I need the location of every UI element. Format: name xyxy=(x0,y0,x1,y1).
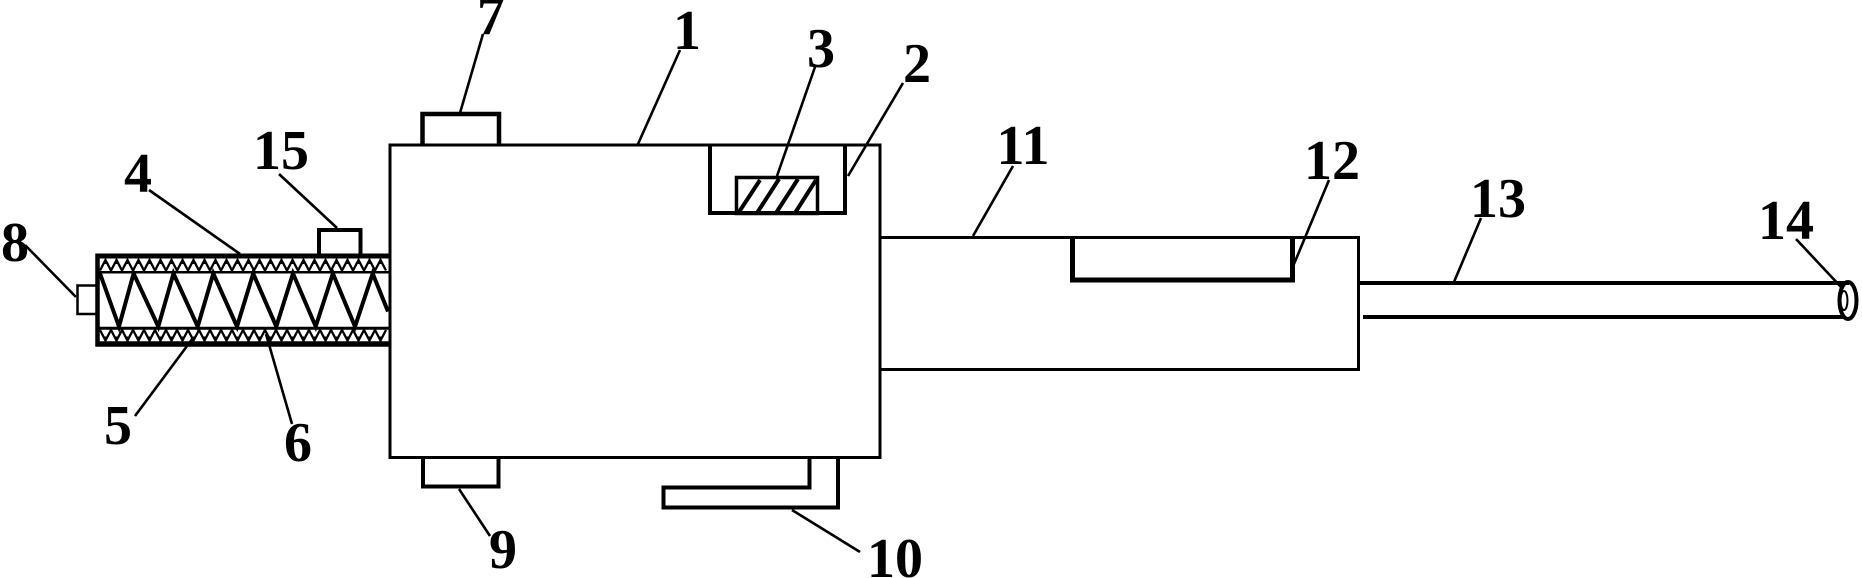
svg-text:4: 4 xyxy=(124,143,152,205)
svg-text:12: 12 xyxy=(1304,130,1360,192)
svg-text:15: 15 xyxy=(253,120,309,182)
svg-text:13: 13 xyxy=(1470,168,1526,230)
svg-text:3: 3 xyxy=(807,18,835,80)
svg-text:11: 11 xyxy=(997,115,1050,177)
svg-text:8: 8 xyxy=(1,212,29,274)
svg-text:7: 7 xyxy=(477,0,505,47)
svg-text:10: 10 xyxy=(867,528,923,578)
svg-text:1: 1 xyxy=(673,0,701,62)
svg-text:14: 14 xyxy=(1758,190,1814,252)
svg-text:5: 5 xyxy=(104,395,132,457)
svg-text:2: 2 xyxy=(903,33,931,95)
svg-text:6: 6 xyxy=(284,412,312,474)
svg-text:9: 9 xyxy=(489,519,517,578)
